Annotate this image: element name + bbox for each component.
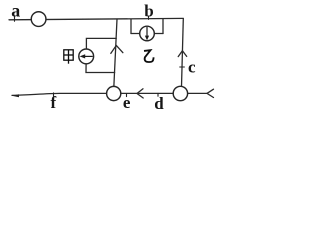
wire top horizontal a-b [9,18,183,19]
svg-text:c: c [188,58,196,77]
current source 甲 circle [79,49,94,64]
tick node a [14,17,16,22]
tick node f [53,93,55,96]
tick node d [157,93,159,96]
label 乙 (drawn) [144,50,154,62]
label 甲 (drawn) [64,50,73,64]
wire middle vertical branch [114,19,118,94]
svg-text:e: e [123,93,131,112]
fork arrow at right end of bottom wire [207,89,214,97]
current arrow up on middle branch [111,45,123,53]
wire 甲 loop bottom stub [86,64,115,73]
svg-text:f: f [50,93,56,112]
wire 乙 loop horizontal [131,33,163,35]
current arrow left on bottom wire between e and d [137,89,143,98]
tick node e [126,94,128,97]
wire right vertical b-c [181,19,183,95]
arrow left at bottom-left wire end [12,94,19,97]
svg-text:b: b [144,2,153,21]
arrow inside 乙 (points down) [145,27,149,40]
current source 乙 circle [140,26,155,41]
svg-text:d: d [154,94,164,113]
wire bottom horizontal f-d [12,93,207,95]
arrow inside 甲 (points left) [80,54,93,58]
node circle bottom middle [107,86,121,100]
wire 乙 loop left stub [130,19,132,33]
tick node b [148,16,150,19]
wire 乙 loop right stub [162,19,164,34]
svg-text:a: a [11,0,20,20]
tick node c [180,66,185,68]
wire 甲 loop top stub [86,38,116,48]
current arrow up on right branch [178,51,187,57]
node circle bottom right [173,86,187,100]
meter circle top-left [31,12,46,27]
